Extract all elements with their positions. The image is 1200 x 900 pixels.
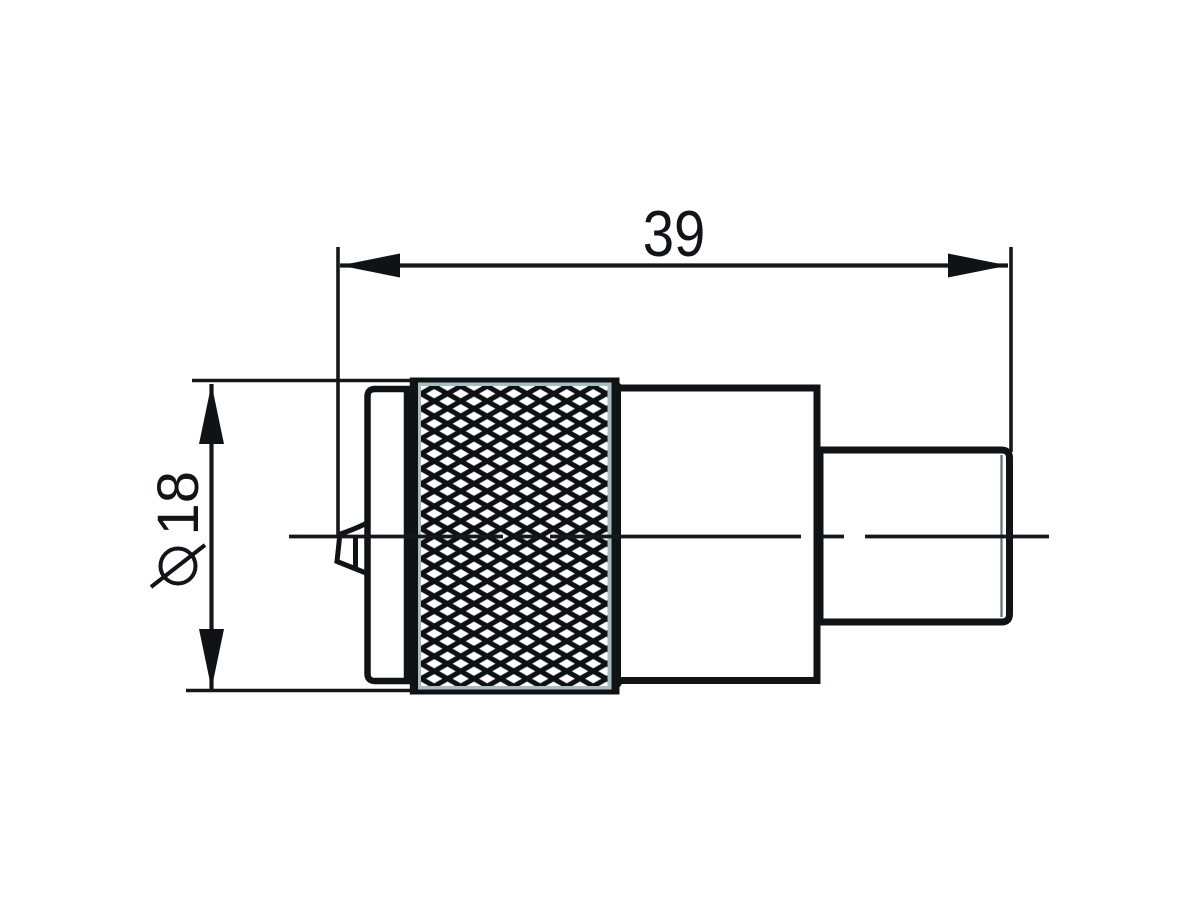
dimension Ø18: top arrowhead	[199, 384, 224, 444]
dimension 39: dimension line	[340, 263, 1008, 267]
diameter symbol slash	[151, 545, 205, 587]
dimension Ø18: extension line bottom	[186, 689, 413, 693]
dimension Ø18: extension line top	[192, 379, 413, 383]
svg-text:39: 39	[643, 197, 706, 270]
dimension Ø18: bottom arrowhead	[199, 629, 224, 689]
dimension 39: left arrowhead	[340, 254, 400, 278]
knurl inner grey strip	[418, 383, 612, 690]
dimension 39: extension line left	[336, 247, 340, 536]
sleeve end thin line	[1000, 455, 1002, 617]
knurl-to-body chamfer bottom	[613, 681, 622, 693]
cable sleeve	[820, 450, 1010, 622]
center pin	[337, 524, 369, 575]
knurl pattern area	[421, 386, 608, 686]
knurled coupling nut: black border	[410, 378, 620, 695]
centerline (dash-dot axis)	[289, 535, 1049, 539]
dimension 39: right arrowhead	[948, 254, 1008, 278]
flange (front coupling ring face)	[368, 389, 408, 681]
svg-text:18: 18	[146, 471, 211, 536]
dimension 39: extension line right	[1009, 247, 1013, 452]
knurl-to-body chamfer top	[613, 380, 622, 389]
diameter symbol circle	[161, 549, 196, 584]
dimension Ø18: dimension line	[209, 384, 213, 689]
body (plain barrel)	[618, 388, 818, 681]
